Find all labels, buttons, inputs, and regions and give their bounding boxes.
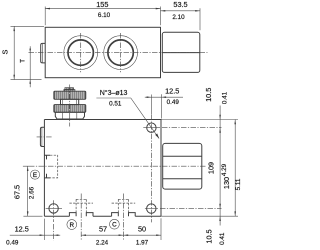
label R circled [67,220,77,230]
svg-text:12.5: 12.5 [15,225,29,234]
knob neck [61,99,79,104]
svg-text:2.10: 2.10 [172,14,185,21]
svg-text:C: C [112,222,117,229]
svg-text:67.5: 67.5 [13,185,22,199]
body bottom face line segments [44,215,161,217]
adjustment knob cap [65,88,74,90]
svg-text:N°3–ø13: N°3–ø13 [100,89,128,97]
bottom face extension line [161,215,238,217]
svg-text:T: T [20,59,27,63]
dimension T [20,46,32,87]
label E circled [30,170,39,179]
svg-text:0.41: 0.41 [221,91,228,104]
side boss inner line [41,44,43,63]
mounting hole top-right [143,95,221,223]
svg-text:S: S [1,49,10,54]
port cavity 1 inner ring [68,40,93,65]
mounting hole bottom-right [145,204,222,213]
label C circled [110,219,120,229]
horizontal centerline top view [29,52,208,54]
right dimension line 10.5/109/10.5 [204,88,228,245]
svg-text:R: R [70,222,75,229]
svg-text:130: 130 [222,177,231,189]
svg-text:12.5: 12.5 [165,87,179,96]
svg-text:109: 109 [207,162,216,174]
svg-text:1.97: 1.97 [136,239,149,246]
cartridge hex nut (front view) [163,143,202,189]
svg-text:0.41: 0.41 [219,232,226,245]
svg-text:10.5: 10.5 [204,88,213,102]
knob upper knurled ring [54,91,86,99]
dimension 12.5 bottom left [6,219,60,247]
hex fitting (top view) [162,32,200,72]
port R cavity [69,194,93,241]
port cavity 1 outer circle [64,36,98,70]
knob lower knurled ring [54,105,86,113]
top face extension line [161,119,238,121]
vertical centerline circle 1 [80,33,82,72]
front view body [44,120,161,217]
left plug centerline [37,136,53,138]
valve axis centerline [29,165,206,167]
right dimension line 130 [222,120,242,217]
knob centerline [69,85,71,127]
svg-text:53.5: 53.5 [173,0,187,9]
svg-text:50: 50 [138,225,146,234]
E port counterbore solid lines [44,155,50,178]
leader N3-013 [96,89,159,139]
svg-text:0.51: 0.51 [109,100,122,107]
dimension 53.5 [161,0,201,30]
dimension 50 [123,218,161,246]
dimension 155 [45,0,160,25]
dimension 12.5 top [145,87,183,119]
dimension S [1,26,45,79]
dimension 67.5 [13,166,43,216]
port C cavity [112,194,136,241]
svg-text:4.29: 4.29 [221,163,228,176]
svg-text:0.49: 0.49 [6,240,19,247]
mounting hole bottom-left [46,200,62,240]
knob hex locknut [55,112,84,119]
svg-text:5.11: 5.11 [235,178,242,190]
svg-text:E: E [33,172,37,179]
svg-text:0.49: 0.49 [167,99,180,106]
port cavity 2 outer circle [104,36,138,70]
svg-text:2.24: 2.24 [96,239,109,246]
svg-text:155: 155 [96,0,108,9]
svg-text:57: 57 [99,225,107,234]
hex fitting mid facet line [162,52,200,54]
side boss plug (top view) [41,43,46,63]
svg-text:10.5: 10.5 [204,229,213,243]
top view body [45,27,160,77]
vertical centerline circle 2 [120,33,122,72]
E port cavity dashed box [50,155,58,178]
svg-text:2.66: 2.66 [29,186,36,199]
left plug (front view) [40,127,44,146]
port cavity 2 inner ring [108,40,133,65]
dimension 57 [81,225,123,247]
svg-text:6.10: 6.10 [98,12,111,19]
